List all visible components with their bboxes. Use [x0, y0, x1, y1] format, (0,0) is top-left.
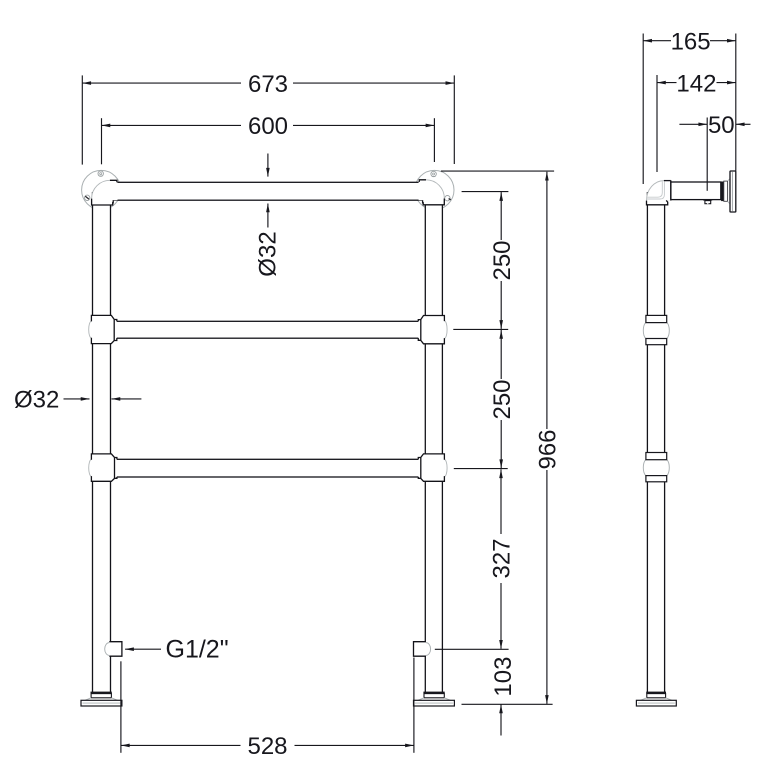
svg-text:250: 250: [489, 379, 516, 419]
screw left on left flange: [85, 195, 90, 200]
screw top on right flange: [431, 171, 436, 176]
side view elbow body: [646, 180, 670, 204]
dim 142 extension line left: [656, 75, 658, 172]
svg-text:327: 327: [489, 538, 516, 578]
right post tube: [425, 192, 442, 692]
dim 50 extension line left: [706, 118, 708, 191]
wall bracket ring: [721, 182, 724, 202]
side view bracket arm tube: [664, 182, 721, 200]
left elbow joint body: [92, 180, 118, 205]
right collar at lower rail: [418, 454, 447, 481]
svg-text:Ø32: Ø32: [14, 386, 59, 413]
dim dia32 top rail arrows: [267, 154, 269, 177]
svg-text:G1/2": G1/2": [166, 635, 229, 663]
dim 250 upper line: [500, 192, 502, 240]
dim 600 extension line left: [101, 118, 103, 164]
dim 673 line: [82, 82, 241, 84]
ref line G fitting centre: [435, 648, 509, 650]
wall flange circle right joint: [415, 170, 454, 209]
grub screw under arm: [703, 199, 712, 204]
dim 327 line: [500, 469, 502, 534]
dim 165/142/50 extension line wall: [735, 34, 737, 171]
dim 165 extension line left: [642, 34, 644, 185]
svg-text:528: 528: [247, 733, 287, 760]
dim 600 line: [102, 124, 242, 126]
dim dia32 left post arrows: [64, 398, 90, 400]
G1/2 leader arrow: [125, 648, 161, 650]
side view upper ball collar: [643, 315, 669, 344]
lower rail tube: [112, 459, 424, 477]
wall flange circle left joint: [82, 170, 121, 209]
dim 528 line: [121, 744, 241, 746]
left collar at lower rail: [89, 454, 117, 481]
left collar at middle rail: [89, 315, 117, 343]
right elbow joint body: [419, 180, 445, 205]
dim 165 line: [643, 40, 671, 42]
svg-text:250: 250: [489, 240, 516, 280]
ref line rail3 centre: [454, 468, 508, 470]
svg-text:673: 673: [248, 71, 288, 98]
ref line top of rail1 for 966: [441, 170, 554, 172]
middle rail tube: [112, 321, 424, 338]
svg-text:165: 165: [671, 28, 711, 55]
right foot: [414, 692, 455, 706]
side view foot: [636, 692, 676, 706]
svg-text:Ø32: Ø32: [254, 231, 281, 276]
dim 528 extension line right: [413, 658, 415, 753]
side view post tube: [647, 192, 664, 692]
dim 966 line: [546, 172, 548, 429]
dim 600 extension line right: [433, 118, 435, 162]
left post tube: [93, 192, 111, 692]
right G1/2 union fitting: [414, 642, 431, 657]
svg-text:600: 600: [248, 113, 288, 140]
dim 103 arrow below floor: [500, 705, 502, 736]
ref line rail1 centre: [462, 191, 509, 193]
right collar at middle rail: [418, 316, 447, 344]
ref line floor: [462, 703, 553, 705]
dim 50 right outside arrow: [736, 123, 751, 125]
wall plate: [730, 171, 736, 212]
top rail tube: [113, 182, 425, 200]
dim 528 extension line left: [120, 661, 122, 753]
svg-text:142: 142: [676, 70, 716, 97]
screw top on left flange: [98, 171, 103, 176]
left G1/2 union fitting: [105, 642, 122, 657]
dim 50 left outside arrow: [679, 123, 707, 125]
dim 673 extension line right: [453, 75, 455, 164]
dim 250 lower line: [500, 330, 502, 379]
side view lower ball collar: [643, 453, 669, 482]
svg-text:50: 50: [708, 112, 735, 139]
dim 673 extension line left: [81, 75, 83, 164]
dim 142 line: [657, 82, 677, 84]
screw lower-right on right flange: [445, 196, 451, 201]
svg-text:966: 966: [535, 429, 562, 469]
ref line rail2 centre: [453, 328, 508, 330]
left foot: [81, 692, 122, 706]
svg-text:103: 103: [490, 657, 517, 697]
wall bracket collar: [724, 179, 730, 204]
